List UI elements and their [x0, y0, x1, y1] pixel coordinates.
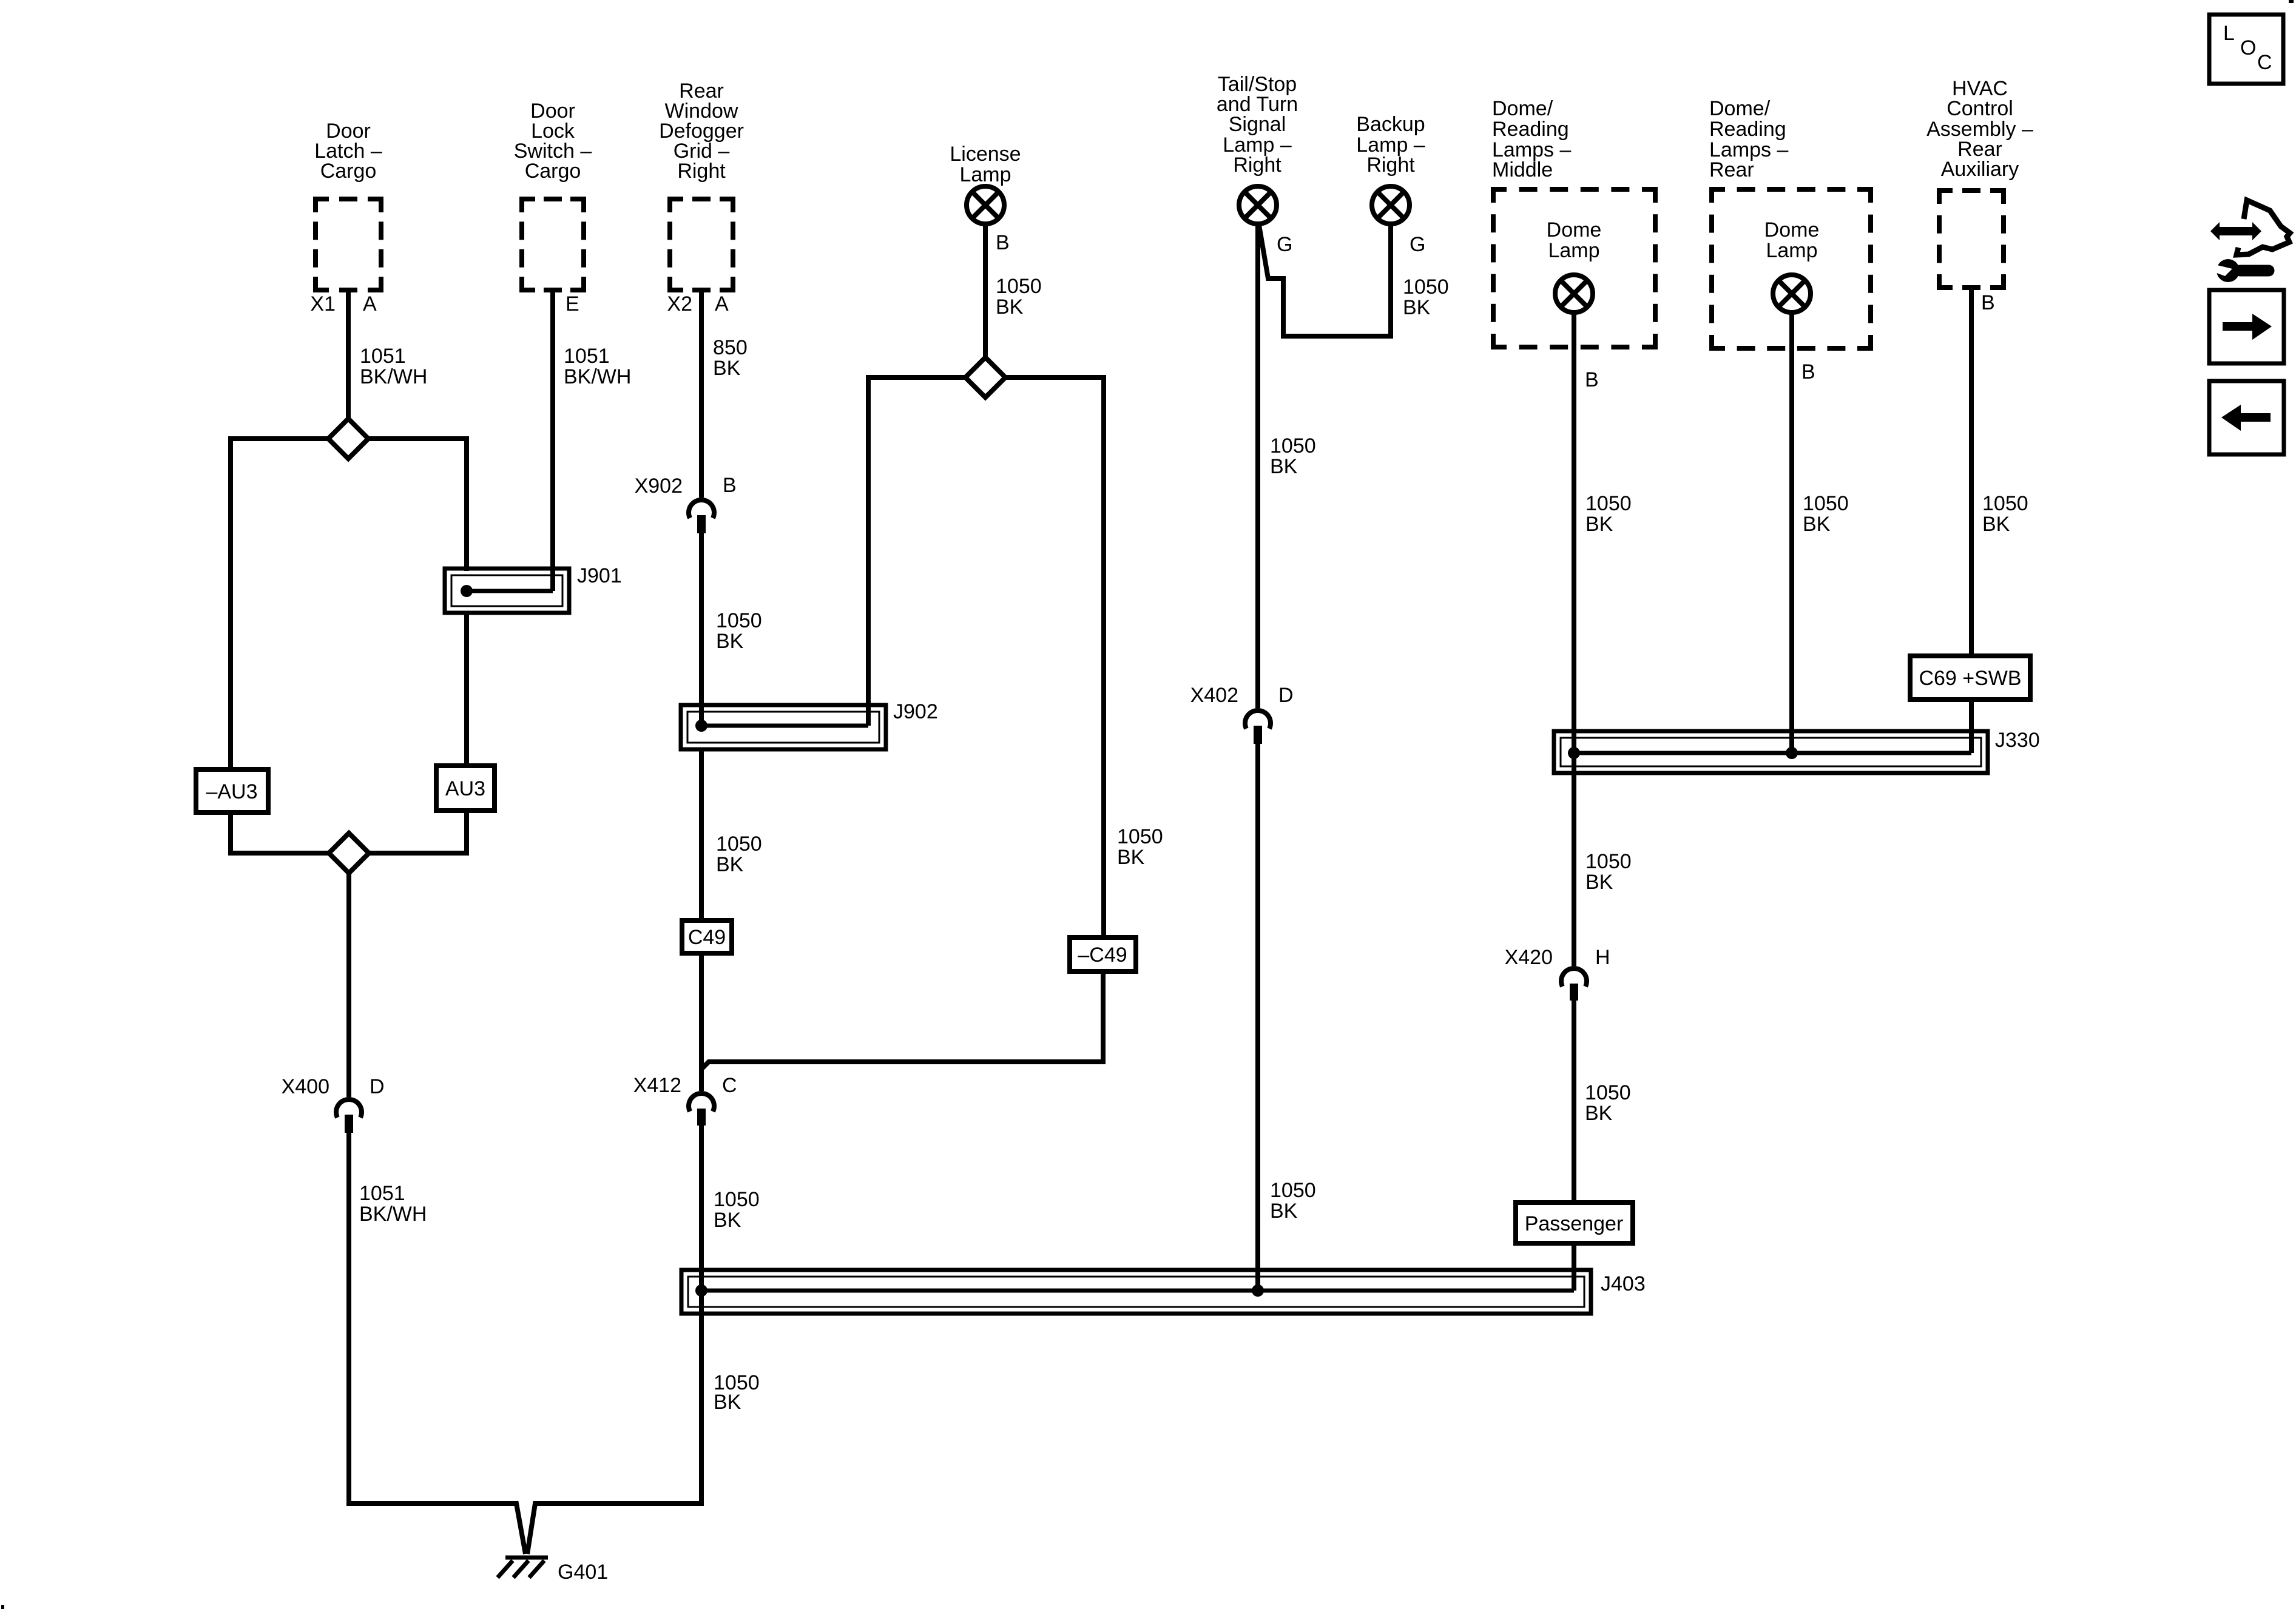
svg-text:Right: Right	[1233, 154, 1281, 177]
svg-text:1050: 1050	[1270, 434, 1316, 457]
LOC legend box	[2209, 15, 2283, 84]
svg-text:Passenger: Passenger	[1525, 1212, 1624, 1235]
svg-text:Control: Control	[1947, 97, 2013, 120]
wire 1050 BK X902 to J902	[699, 533, 704, 726]
option box -AU3	[196, 769, 268, 812]
svg-text:X420: X420	[1505, 946, 1553, 969]
wire jog from tail lamp joining backup lamp wire	[1259, 225, 1391, 336]
option box AU3	[436, 766, 495, 811]
wire label 1050 BK	[1803, 492, 1849, 536]
svg-text:Signal: Signal	[1229, 113, 1286, 136]
splice diamond B	[329, 833, 369, 873]
wire 1050 BK HVAC down to C69 +SWB	[1969, 290, 1974, 656]
svg-text:C69 +SWB: C69 +SWB	[1919, 667, 2021, 690]
wire X420 down to Passenger box	[1572, 1001, 1576, 1203]
svg-text:J901: J901	[577, 564, 622, 587]
svg-text:C: C	[722, 1074, 737, 1097]
wire 1051 BK/WH from Door Lock Switch to J901	[550, 292, 555, 591]
svg-text:L: L	[2223, 22, 2235, 45]
svg-text:1051: 1051	[564, 345, 610, 368]
ground G401	[498, 1558, 548, 1578]
svg-text:Lamp: Lamp	[959, 163, 1011, 186]
wire C49 down to X412	[699, 953, 704, 1091]
splice diamond A	[328, 419, 368, 459]
wire label 1050 BK	[1585, 1081, 1631, 1125]
wire label 1050 BK	[996, 275, 1042, 319]
wire label 1050 BK	[1403, 275, 1449, 319]
svg-text:A: A	[715, 292, 729, 316]
svg-text:Reading: Reading	[1709, 118, 1786, 141]
svg-text:Cargo: Cargo	[525, 160, 581, 183]
svg-text:Dome: Dome	[1547, 218, 1602, 241]
pin label X2 A	[667, 292, 729, 316]
wire label 1050 BK	[1585, 492, 1632, 536]
option box Passenger	[1516, 1203, 1633, 1243]
connector: Dome/Reading Lamps - Middle (dashed box)	[1491, 97, 1658, 349]
svg-text:BK: BK	[1585, 871, 1613, 894]
svg-text:X412: X412	[633, 1074, 681, 1097]
svg-text:BK/WH: BK/WH	[564, 365, 631, 388]
splice pack J330	[1554, 731, 1988, 773]
wire J902 down to C49	[699, 749, 704, 920]
wire horizontal at diamond B	[231, 811, 467, 853]
wire 1050 BK middle dome lamp down through J330 to X420	[1572, 312, 1576, 966]
svg-text:1050: 1050	[1585, 850, 1632, 873]
wire 1050 BK X402 down to J403	[1255, 744, 1260, 1291]
svg-text:–AU3: –AU3	[206, 780, 257, 803]
svg-text:Auxiliary: Auxiliary	[1941, 158, 2019, 181]
svg-text:AU3: AU3	[445, 777, 485, 800]
svg-text:B: B	[996, 231, 1010, 254]
splice diamond C	[965, 357, 1005, 397]
svg-text:B: B	[723, 474, 737, 497]
svg-text:J330: J330	[1995, 729, 2040, 752]
lamp: Backup Lamp - Right	[1356, 113, 1425, 224]
wire horizontal branch at diamond A	[231, 439, 467, 772]
svg-text:Lamp: Lamp	[1548, 239, 1599, 262]
svg-text:BK: BK	[1270, 1200, 1298, 1223]
svg-text:1050: 1050	[996, 275, 1042, 298]
icon: vehicle outline with double arrow and wrench	[2210, 200, 2290, 282]
svg-text:1050: 1050	[1982, 492, 2028, 515]
wire horizontal at diamond C	[868, 377, 1104, 937]
navigation box: arrow right	[2209, 290, 2284, 363]
option box C49	[682, 920, 732, 953]
inline connector X420 pin H	[1505, 946, 1610, 1001]
wire -C49 down and left to X412 wire	[701, 971, 1103, 1069]
wire label 1050 BK below J403	[714, 1371, 760, 1414]
wire C69 +SWB down into J330	[1969, 700, 1974, 753]
svg-text:O: O	[2240, 36, 2256, 59]
svg-text:1051: 1051	[359, 1182, 405, 1205]
lamp: License Lamp	[950, 143, 1021, 224]
wire label 1050 BK	[1117, 825, 1163, 869]
svg-text:X1: X1	[310, 292, 336, 316]
svg-text:Right: Right	[1366, 154, 1415, 177]
svg-text:BK: BK	[714, 1209, 741, 1232]
splice pack J403	[681, 1270, 1591, 1314]
option box C69 +SWB	[1910, 656, 2030, 700]
svg-text:1050: 1050	[716, 832, 762, 856]
svg-text:Dome: Dome	[1764, 218, 1820, 241]
svg-text:BK: BK	[714, 1391, 741, 1414]
svg-text:1050: 1050	[1803, 492, 1849, 515]
connector: Door Lock Switch - Cargo (dashed box)	[514, 100, 592, 292]
svg-text:BK/WH: BK/WH	[360, 365, 427, 388]
svg-text:1050: 1050	[1585, 492, 1632, 515]
wire label 1050 BK	[716, 609, 762, 653]
wire label 1050 BK	[716, 832, 762, 876]
svg-text:1050: 1050	[1403, 275, 1449, 299]
svg-text:Dome/: Dome/	[1709, 97, 1771, 120]
svg-text:J902: J902	[893, 700, 938, 723]
wire label 1050 BK	[1270, 1179, 1316, 1223]
connector: Rear Window Defogger Grid - Right (dashed box)	[659, 79, 744, 292]
svg-text:D: D	[1278, 684, 1294, 707]
svg-text:X2: X2	[667, 292, 692, 316]
svg-text:1050: 1050	[1585, 1081, 1631, 1104]
svg-text:BK: BK	[716, 853, 744, 876]
wire label 850 BK	[713, 336, 748, 380]
svg-text:X400: X400	[282, 1075, 329, 1098]
svg-text:BK: BK	[1982, 513, 2010, 536]
svg-text:BK: BK	[996, 295, 1024, 319]
svg-text:J403: J403	[1601, 1272, 1646, 1295]
svg-text:1051: 1051	[360, 345, 406, 368]
svg-text:BK/WH: BK/WH	[359, 1203, 427, 1226]
svg-text:BK: BK	[1117, 846, 1145, 869]
wire X400 down to ground run	[349, 1133, 525, 1554]
wire 1051 BK/WH from Door Latch to splice diamond	[346, 292, 351, 420]
svg-text:1050: 1050	[1117, 825, 1163, 848]
svg-text:G: G	[1277, 233, 1292, 256]
svg-text:Backup: Backup	[1356, 113, 1425, 136]
wire 850 BK defogger to X902	[699, 292, 704, 498]
svg-text:1050: 1050	[716, 609, 762, 632]
wire 1050 BK backup lamp down to jog	[1388, 224, 1393, 339]
lamp: Dome Lamp (rear)	[1764, 218, 1820, 312]
svg-text:X902: X902	[635, 474, 683, 498]
connector: Door Latch - Cargo (dashed box)	[313, 120, 383, 292]
wire label 1050 BK below X412	[714, 1188, 760, 1232]
svg-text:BK: BK	[713, 357, 741, 380]
svg-text:License: License	[950, 143, 1021, 166]
svg-text:BK: BK	[1270, 455, 1298, 478]
svg-text:Dome/: Dome/	[1492, 97, 1553, 120]
svg-text:BK: BK	[1585, 1102, 1613, 1125]
svg-text:–C49: –C49	[1078, 944, 1127, 967]
svg-text:C: C	[2257, 51, 2272, 74]
svg-text:850: 850	[713, 336, 748, 359]
svg-text:X402: X402	[1190, 684, 1238, 707]
splice pack J902	[681, 705, 886, 749]
svg-text:Middle: Middle	[1492, 158, 1553, 181]
wire Passenger box down to J403 bus	[1572, 1243, 1576, 1291]
page artifact dot top right	[2289, 0, 2294, 3]
svg-text:Rear: Rear	[1709, 158, 1754, 181]
connector: Dome/Reading Lamps - Rear (dashed box)	[1709, 97, 1873, 351]
svg-text:BK: BK	[1803, 513, 1831, 536]
wire J901 down to AU3	[464, 613, 469, 768]
svg-text:Lamp: Lamp	[1766, 239, 1817, 262]
svg-text:C49: C49	[688, 926, 726, 949]
wire 1050 BK license lamp to diamond C	[983, 224, 988, 359]
wire 1051 BK/WH diamond B down to X400	[346, 873, 351, 1097]
wire label 1051 BK/WH	[359, 1182, 427, 1226]
wire label 1051 BK/WH	[360, 345, 427, 388]
wire label 1051 BK/WH	[564, 345, 631, 388]
splice pack J901	[445, 569, 569, 613]
wire label 1050 BK	[1982, 492, 2028, 536]
svg-text:G401: G401	[558, 1561, 608, 1584]
wire label 1050 BK	[1270, 434, 1316, 478]
svg-text:Right: Right	[677, 160, 726, 183]
navigation box: arrow left	[2209, 381, 2284, 454]
svg-text:G: G	[1410, 233, 1425, 256]
wire 1050 BK tail lamp down to X402	[1255, 224, 1260, 708]
svg-text:BK: BK	[1403, 296, 1431, 319]
pin label X1 A	[310, 292, 377, 316]
svg-text:1050: 1050	[1270, 1179, 1316, 1202]
inline connector X902 pin B	[635, 474, 737, 533]
svg-text:D: D	[370, 1075, 385, 1098]
svg-text:BK: BK	[1585, 513, 1613, 536]
inline connector X400 pin D	[282, 1075, 385, 1133]
svg-text:H: H	[1595, 946, 1610, 969]
connector: HVAC Control Assembly - Rear Auxiliary (dashed box)	[1926, 77, 2033, 290]
wire label 1050 BK below J330	[1585, 850, 1632, 894]
option box -C49	[1070, 937, 1136, 971]
inline connector X412 pin C	[633, 1074, 737, 1126]
lamp: Tail/Stop and Turn Signal Lamp - Right	[1217, 73, 1298, 224]
svg-text:1050: 1050	[714, 1188, 760, 1211]
svg-text:Reading: Reading	[1492, 118, 1569, 141]
svg-text:B: B	[1801, 360, 1815, 383]
wire 1050 BK rear dome lamp down to J330	[1789, 312, 1794, 753]
lamp: Dome Lamp (middle)	[1547, 218, 1602, 312]
wire X412 down through J403 to ground run	[527, 1126, 701, 1554]
svg-text:A: A	[363, 292, 377, 316]
page artifact dot bottom left	[1, 1605, 4, 1609]
svg-text:BK: BK	[716, 630, 744, 653]
svg-text:Cargo: Cargo	[320, 160, 377, 183]
svg-text:B: B	[1585, 368, 1599, 391]
svg-text:E: E	[566, 292, 579, 316]
inline connector X402 pin D	[1190, 684, 1294, 744]
svg-text:B: B	[1981, 291, 1995, 314]
